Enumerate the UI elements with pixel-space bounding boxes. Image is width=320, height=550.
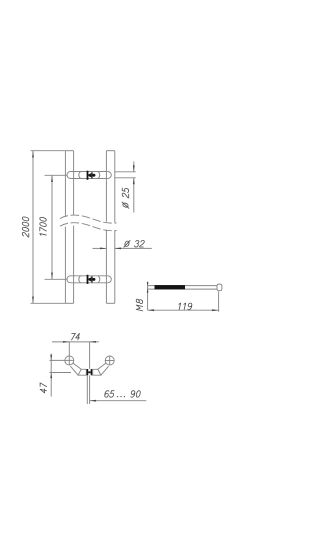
dimension M8: [147, 282, 149, 311]
dimension 1700 label: [40, 217, 47, 237]
bolt detail: [148, 284, 222, 291]
top view left foot: [78, 369, 86, 375]
standoff top bolt (black): [87, 171, 96, 180]
dimension M8 label: [136, 299, 143, 311]
top view bolt (black H): [87, 369, 93, 375]
break line upper: [60, 215, 117, 223]
dimension 74: [52, 341, 99, 369]
dimension 47 label: [40, 383, 47, 394]
dimension 119: [148, 292, 219, 312]
top view left arm: [70, 363, 81, 375]
top view right tube circle: [105, 356, 114, 365]
dimension 2000: [31, 151, 66, 304]
right tube: [106, 151, 114, 304]
break line lower: [60, 223, 117, 231]
top view right foot: [93, 369, 101, 375]
standoff top capsule: [67, 172, 111, 179]
dimension 119 label: [178, 303, 193, 310]
dimension dia32 label: [124, 240, 145, 247]
dimension dia32: [93, 248, 152, 250]
dimension 47: [50, 354, 74, 397]
standoff bottom bolt (black): [87, 275, 96, 284]
bolt thread (black): [155, 285, 186, 289]
dimension dia25 label: [122, 187, 129, 208]
dimension 2000 label: [22, 216, 29, 237]
left tube: [65, 151, 73, 304]
dimension 74 label: [70, 333, 81, 340]
dimension dia25: [115, 162, 136, 213]
dimension 1700: [45, 175, 68, 279]
top view right arm: [98, 363, 109, 375]
top view left tube circle: [65, 356, 74, 365]
standoff bottom capsule: [67, 276, 111, 283]
dimension 65...90: [87, 375, 146, 404]
dimension 65...90 label: [104, 391, 141, 398]
